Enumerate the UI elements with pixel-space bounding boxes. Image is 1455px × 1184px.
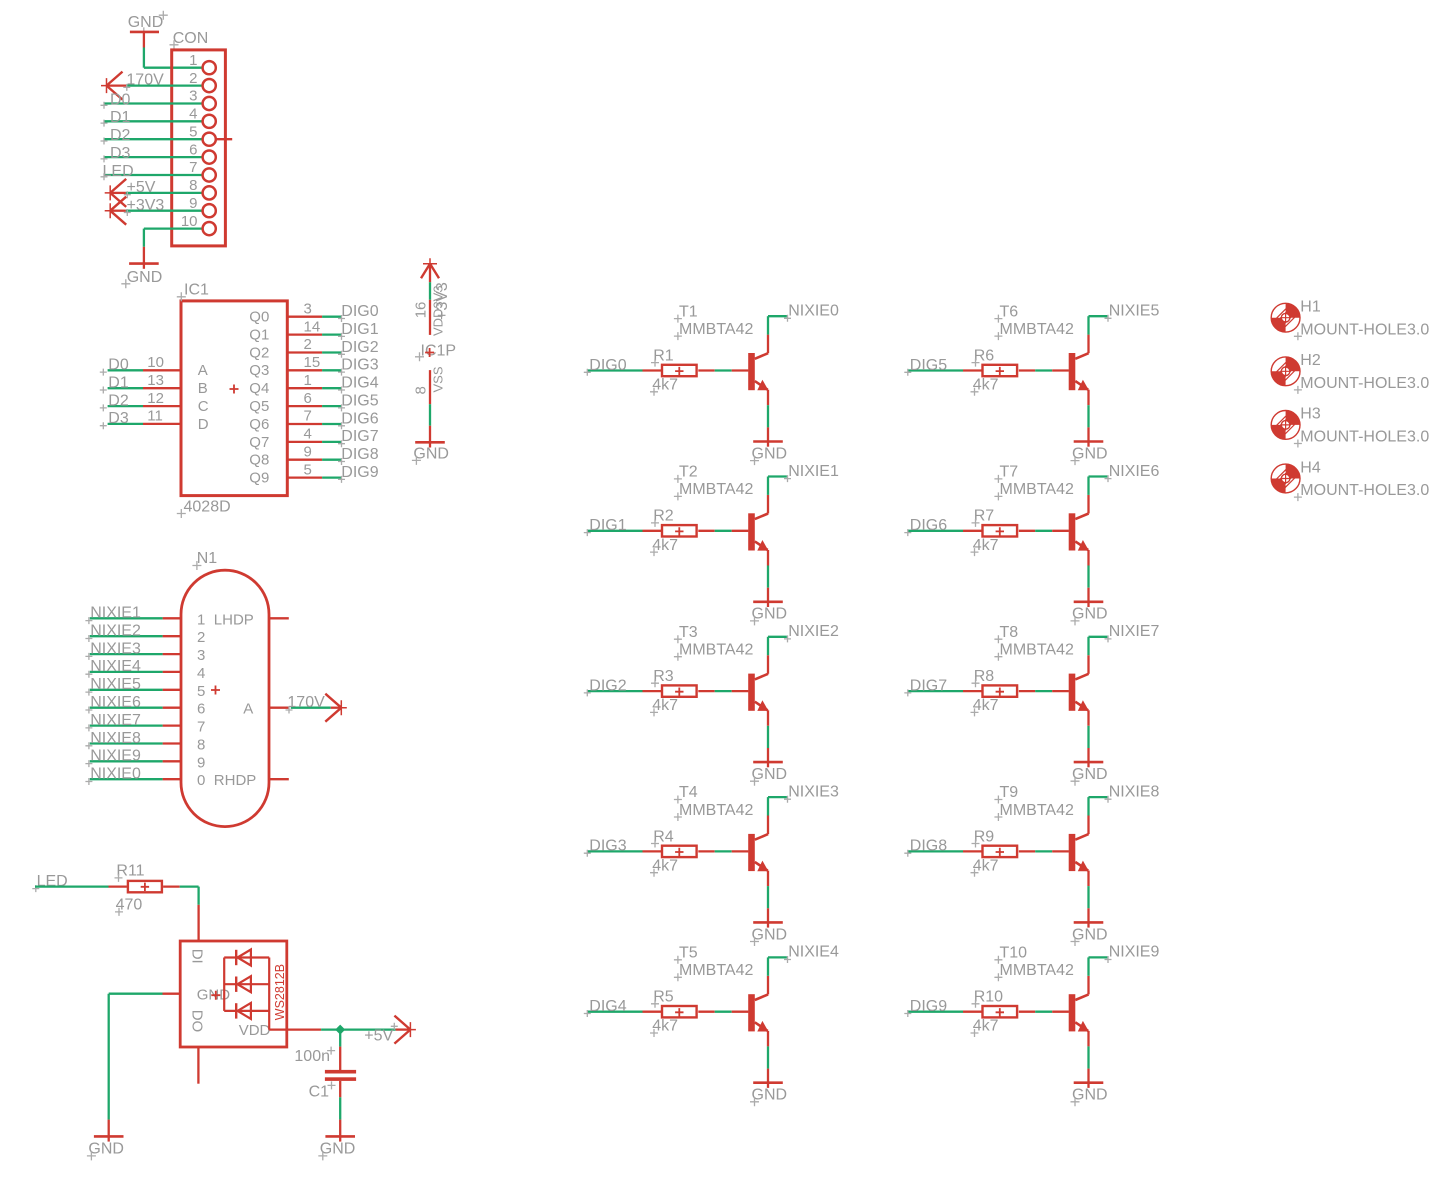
- transistor T3 MMBTA42: [674, 624, 769, 711]
- pin 4 of N1: [163, 665, 206, 682]
- net NIXIE1 to N1: [85, 605, 162, 625]
- svg-text:4k7: 4k7: [652, 537, 678, 554]
- pin 5 (Q9) of IC1: [249, 461, 322, 486]
- net NIXIE6 to N1: [85, 694, 162, 714]
- svg-text:MOUNT-HOLE3.0: MOUNT-HOLE3.0: [1300, 321, 1429, 338]
- capacitor C1 100n: [294, 1047, 356, 1101]
- wire T3 emitter to ground: [767, 710, 769, 762]
- svg-text:7: 7: [197, 719, 205, 736]
- svg-text:GND: GND: [1072, 766, 1108, 783]
- resistor R1 4k7: [650, 347, 697, 395]
- wire R9 to T9 base: [1019, 850, 1069, 852]
- svg-text:9: 9: [189, 195, 197, 212]
- IC IC1P label: [415, 343, 456, 362]
- net DIG6 from IC1: [322, 410, 379, 429]
- net DIG4 to R5: [584, 998, 662, 1017]
- svg-text:+3V3: +3V3: [434, 282, 451, 320]
- svg-text:MMBTA42: MMBTA42: [1000, 321, 1074, 338]
- transistor T7 MMBTA42: [994, 464, 1089, 551]
- svg-text:GND: GND: [752, 606, 788, 623]
- net DIG8 from IC1: [322, 446, 379, 465]
- svg-text:NIXIE1: NIXIE1: [90, 605, 141, 622]
- svg-text:14: 14: [304, 318, 321, 335]
- resistor R3 4k7: [650, 668, 697, 716]
- svg-text:NIXIE4: NIXIE4: [788, 944, 839, 961]
- net NIXIE8 to N1: [85, 730, 162, 750]
- junction node +5V: [335, 1025, 345, 1035]
- svg-text:4k7: 4k7: [973, 1018, 999, 1035]
- net NIXIE3 from T4 collector: [768, 783, 839, 834]
- svg-text:MMBTA42: MMBTA42: [679, 321, 753, 338]
- svg-text:DIG5: DIG5: [910, 357, 947, 374]
- svg-text:7: 7: [304, 408, 312, 425]
- svg-text:D1: D1: [110, 109, 131, 126]
- svg-text:13: 13: [147, 372, 164, 389]
- connector CON: [170, 30, 226, 246]
- net NIXIE5 from T6 collector: [1089, 303, 1160, 354]
- net DIG1 from IC1: [322, 321, 379, 340]
- svg-text:R8: R8: [974, 668, 995, 685]
- svg-text:T8: T8: [1000, 624, 1019, 641]
- svg-text:DIG2: DIG2: [341, 339, 378, 356]
- svg-text:DIG3: DIG3: [589, 838, 626, 855]
- svg-text:3: 3: [189, 88, 197, 105]
- svg-text:16: 16: [412, 302, 429, 319]
- svg-text:DIG4: DIG4: [341, 375, 378, 392]
- net +5V arrow: [340, 1016, 416, 1045]
- net D2 (CON pin 5): [101, 127, 203, 145]
- net D1 to IC1: [100, 375, 143, 394]
- svg-text:0: 0: [197, 772, 205, 789]
- svg-text:T3: T3: [679, 624, 698, 641]
- net D0 (CON pin 3): [101, 91, 203, 109]
- svg-text:MMBTA42: MMBTA42: [679, 642, 753, 659]
- svg-text:NIXIE6: NIXIE6: [90, 694, 141, 711]
- IC U1 (IC1 4028D): [177, 282, 287, 518]
- ground GND (bottom of CON): [121, 264, 162, 289]
- net +3V3 (CON pin 9): [105, 197, 202, 225]
- svg-text:VDD: VDD: [239, 1022, 271, 1039]
- pin 8 of CON: [189, 177, 216, 199]
- svg-text:VSS: VSS: [431, 366, 446, 392]
- svg-text:MMBTA42: MMBTA42: [679, 481, 753, 498]
- svg-text:5: 5: [304, 461, 312, 478]
- pin 7 of N1: [163, 719, 206, 736]
- net +5V (CON pin 8): [105, 179, 202, 207]
- svg-text:4k7: 4k7: [973, 697, 999, 714]
- wire T8 emitter to ground: [1087, 710, 1089, 762]
- svg-text:DIG9: DIG9: [910, 998, 947, 1015]
- wire GND to CON pin1: [144, 32, 202, 68]
- ground GND (T3): [750, 762, 787, 786]
- ground GND (top of CON): [128, 11, 168, 37]
- svg-text:MMBTA42: MMBTA42: [679, 802, 753, 819]
- svg-text:R9: R9: [974, 828, 995, 845]
- pin 8 (VSS) of IC1P to GND: [412, 366, 445, 442]
- svg-text:H4: H4: [1300, 459, 1321, 476]
- svg-text:D3: D3: [110, 145, 131, 162]
- transistor T9 MMBTA42: [994, 784, 1089, 871]
- svg-text:1: 1: [189, 52, 197, 69]
- net D3 to IC1: [100, 410, 143, 429]
- pin 3 (Q0) of IC1: [249, 300, 322, 325]
- svg-text:DIG8: DIG8: [910, 838, 947, 855]
- mount hole H3 MOUNT-HOLE3.0: [1271, 406, 1429, 448]
- svg-text:1: 1: [197, 611, 205, 628]
- svg-text:Q4: Q4: [249, 380, 269, 397]
- transistor T4 MMBTA42: [674, 784, 769, 871]
- svg-text:5: 5: [189, 123, 197, 140]
- svg-text:MMBTA42: MMBTA42: [1000, 481, 1074, 498]
- net D2 to IC1: [100, 392, 143, 411]
- svg-text:H3: H3: [1300, 406, 1321, 423]
- net DIG0 from IC1: [322, 303, 379, 322]
- transistor T10 MMBTA42: [994, 945, 1089, 1032]
- svg-text:MMBTA42: MMBTA42: [1000, 642, 1074, 659]
- svg-text:10: 10: [181, 213, 198, 230]
- svg-text:DIG1: DIG1: [341, 321, 378, 338]
- svg-text:NIXIE1: NIXIE1: [788, 463, 839, 480]
- pin 13 (B) of IC1: [143, 372, 208, 397]
- svg-text:IC1P: IC1P: [421, 343, 457, 360]
- svg-text:NIXIE7: NIXIE7: [1109, 623, 1160, 640]
- svg-text:DIG5: DIG5: [341, 392, 378, 409]
- svg-text:4k7: 4k7: [973, 857, 999, 874]
- svg-text:DIG8: DIG8: [341, 446, 378, 463]
- net NIXIE2 to N1: [85, 623, 162, 643]
- net NIXIE7 from T8 collector: [1089, 623, 1160, 674]
- svg-text:4k7: 4k7: [652, 857, 678, 874]
- svg-text:NIXIE9: NIXIE9: [1109, 944, 1160, 961]
- svg-text:IC1: IC1: [184, 282, 209, 299]
- svg-text:WS2812B: WS2812B: [273, 964, 287, 1020]
- svg-text:H1: H1: [1300, 299, 1321, 316]
- wire junction to C1: [339, 1030, 341, 1070]
- net DIG5 from IC1: [322, 392, 379, 411]
- wire T10 emitter to ground: [1087, 1031, 1089, 1083]
- svg-text:D2: D2: [108, 392, 129, 409]
- wire T4 emitter to ground: [767, 871, 769, 923]
- svg-text:Q7: Q7: [249, 434, 269, 451]
- svg-text:GND: GND: [128, 14, 164, 31]
- svg-text:4: 4: [304, 426, 312, 443]
- svg-text:GND: GND: [752, 766, 788, 783]
- net NIXIE0 from T1 collector: [768, 303, 839, 354]
- net NIXIE0 to N1: [85, 766, 162, 786]
- wire T9 emitter to ground: [1087, 871, 1089, 923]
- resistor R5 4k7: [650, 989, 697, 1037]
- svg-text:2: 2: [189, 70, 197, 87]
- resistor R6 4k7: [971, 347, 1018, 395]
- svg-text:NIXIE5: NIXIE5: [90, 676, 141, 693]
- svg-text:4k7: 4k7: [652, 377, 678, 394]
- mount hole H4 MOUNT-HOLE3.0: [1271, 459, 1429, 501]
- pin 14 (Q1) of IC1: [249, 318, 322, 343]
- svg-text:GND: GND: [127, 269, 163, 286]
- svg-text:R5: R5: [653, 989, 674, 1006]
- wire R4 to T4 base: [698, 850, 748, 852]
- svg-text:100n: 100n: [294, 1048, 330, 1065]
- svg-text:R3: R3: [653, 668, 674, 685]
- stub DO pin of WS2812B: [197, 1047, 199, 1084]
- svg-text:Q2: Q2: [249, 344, 269, 361]
- net DIG9 from IC1: [322, 464, 379, 483]
- svg-text:T4: T4: [679, 784, 698, 801]
- svg-text:NIXIE0: NIXIE0: [90, 766, 141, 783]
- svg-text:MOUNT-HOLE3.0: MOUNT-HOLE3.0: [1300, 429, 1429, 446]
- stub CON pin 5: [216, 138, 232, 140]
- svg-text:3: 3: [197, 647, 205, 664]
- pin 6 of N1: [163, 701, 206, 718]
- svg-text:D0: D0: [110, 91, 131, 108]
- wire R1 to T1 base: [698, 369, 748, 371]
- pin 6 (Q5) of IC1: [249, 390, 322, 415]
- net NIXIE1 from T2 collector: [768, 463, 839, 514]
- svg-text:MOUNT-HOLE3.0: MOUNT-HOLE3.0: [1300, 375, 1429, 392]
- svg-text:NIXIE8: NIXIE8: [90, 730, 141, 747]
- svg-text:4: 4: [189, 106, 197, 123]
- net NIXIE4 to N1: [85, 658, 162, 678]
- svg-text:+3V3: +3V3: [127, 197, 165, 214]
- svg-text:GND: GND: [1072, 445, 1108, 462]
- svg-text:DI: DI: [189, 949, 206, 964]
- svg-text:GND: GND: [752, 1087, 788, 1104]
- ground GND (IC1P): [412, 442, 449, 465]
- svg-text:Q9: Q9: [249, 470, 269, 487]
- svg-text:170V: 170V: [126, 72, 164, 89]
- pin 8 of N1: [163, 737, 206, 754]
- pin 1 of N1: [163, 611, 206, 628]
- svg-text:D1: D1: [108, 375, 129, 392]
- pin 15 (Q3) of IC1: [249, 354, 322, 379]
- svg-text:R7: R7: [974, 508, 995, 525]
- pin 7 of CON: [189, 159, 216, 181]
- ground GND (T10): [1071, 1083, 1108, 1107]
- svg-text:10: 10: [147, 354, 164, 371]
- svg-text:11: 11: [147, 408, 163, 425]
- svg-text:Q1: Q1: [249, 327, 269, 344]
- net DIG7 from IC1: [322, 428, 379, 447]
- svg-text:GND: GND: [88, 1141, 124, 1158]
- net NIXIE7 to N1: [85, 712, 162, 732]
- ground GND (T8): [1071, 762, 1108, 786]
- ground GND (T5): [750, 1083, 787, 1107]
- net LED to R11: [32, 873, 127, 892]
- wire R8 to T8 base: [1019, 690, 1069, 692]
- svg-text:T1: T1: [679, 303, 698, 320]
- svg-text:T2: T2: [679, 464, 698, 481]
- svg-text:Q0: Q0: [249, 309, 269, 326]
- svg-text:4k7: 4k7: [973, 537, 999, 554]
- svg-text:NIXIE0: NIXIE0: [788, 303, 839, 320]
- svg-text:GND: GND: [752, 926, 788, 943]
- power symbol IC1P (+3V3 / VDD3V3 pin 16): [412, 258, 451, 336]
- transistor T8 MMBTA42: [994, 624, 1089, 711]
- svg-text:NIXIE3: NIXIE3: [90, 640, 141, 657]
- svg-text:DIG6: DIG6: [910, 517, 947, 534]
- net NIXIE2 from T3 collector: [768, 623, 839, 674]
- svg-text:8: 8: [189, 177, 197, 194]
- svg-text:B: B: [198, 380, 208, 397]
- resistor R11 470: [115, 863, 162, 916]
- pin 2 of N1: [163, 629, 206, 646]
- svg-text:A: A: [198, 362, 208, 379]
- svg-text:MOUNT-HOLE3.0: MOUNT-HOLE3.0: [1300, 482, 1429, 499]
- net NIXIE9 from T10 collector: [1089, 944, 1160, 995]
- svg-text:6: 6: [304, 390, 312, 407]
- svg-text:9: 9: [197, 754, 205, 771]
- svg-text:D0: D0: [108, 357, 129, 374]
- svg-text:D: D: [198, 416, 209, 433]
- svg-text:DIG4: DIG4: [589, 998, 626, 1015]
- wire T2 emitter to ground: [767, 550, 769, 602]
- svg-text:2: 2: [304, 336, 312, 353]
- svg-text:C1: C1: [309, 1084, 330, 1101]
- svg-text:DIG3: DIG3: [341, 357, 378, 374]
- svg-text:170V: 170V: [287, 694, 325, 711]
- pin GND of WS2812B, wire to ground: [109, 994, 181, 1137]
- svg-text:DIG0: DIG0: [589, 357, 626, 374]
- pin 5 of CON: [189, 123, 216, 145]
- pin 9 (Q8) of IC1: [249, 443, 322, 468]
- svg-text:+5V: +5V: [127, 179, 156, 196]
- transistor T2 MMBTA42: [674, 464, 769, 551]
- net NIXIE3 to N1: [85, 640, 162, 660]
- svg-text:Q6: Q6: [249, 416, 269, 433]
- resistor R8 4k7: [971, 668, 1018, 716]
- pin 12 (C) of IC1: [143, 390, 209, 415]
- ground GND (T7): [1071, 602, 1108, 626]
- svg-text:GND: GND: [1072, 606, 1108, 623]
- net NIXIE8 from T9 collector: [1089, 783, 1160, 834]
- net D3 (CON pin 6): [101, 145, 203, 163]
- svg-text:4028D: 4028D: [184, 499, 231, 516]
- svg-text:4k7: 4k7: [973, 377, 999, 394]
- wire CON pin10 to GND: [144, 229, 202, 264]
- transistor T6 MMBTA42: [994, 303, 1089, 390]
- wire T7 emitter to ground: [1087, 550, 1089, 602]
- svg-text:NIXIE8: NIXIE8: [1109, 783, 1160, 800]
- pin 3 of CON: [189, 88, 216, 110]
- svg-text:DIG1: DIG1: [589, 517, 626, 534]
- svg-text:D2: D2: [110, 127, 131, 144]
- resistor R9 4k7: [971, 828, 1018, 876]
- svg-text:DIG9: DIG9: [341, 464, 378, 481]
- net NIXIE5 to N1: [85, 676, 162, 696]
- pin A of N1, net 170V: [243, 694, 347, 722]
- wire C1 to ground: [339, 1081, 341, 1137]
- net D0 to IC1: [100, 357, 143, 376]
- pin 9 of CON: [189, 195, 216, 217]
- svg-text:4k7: 4k7: [652, 1018, 678, 1035]
- wire R10 to T10 base: [1019, 1011, 1069, 1013]
- net DIG3 to R4: [584, 838, 662, 857]
- svg-text:D3: D3: [108, 410, 129, 427]
- ground GND (T6): [1071, 442, 1108, 466]
- svg-text:DIG6: DIG6: [341, 410, 378, 427]
- svg-text:NIXIE7: NIXIE7: [90, 712, 141, 729]
- net DIG0 to R1: [584, 357, 662, 376]
- resistor R10 4k7: [971, 989, 1018, 1037]
- svg-text:DIG7: DIG7: [910, 677, 947, 694]
- svg-text:12: 12: [147, 390, 164, 407]
- net 170V (CON pin 2): [101, 72, 202, 100]
- svg-text:NIXIE6: NIXIE6: [1109, 463, 1160, 480]
- net DIG2 to R3: [584, 677, 662, 696]
- svg-text:GND: GND: [1072, 1087, 1108, 1104]
- ground GND (T4): [750, 922, 787, 946]
- pin 6 of CON: [189, 141, 216, 163]
- pin 10 (A) of IC1: [143, 354, 208, 379]
- svg-text:R10: R10: [974, 989, 1003, 1006]
- nixie tube N1: [181, 550, 269, 827]
- resistor R7 4k7: [971, 508, 1018, 556]
- net DIG6 to R7: [904, 517, 982, 536]
- svg-text:NIXIE9: NIXIE9: [90, 748, 141, 765]
- wire T1 emitter to ground: [767, 390, 769, 442]
- svg-text:DO: DO: [189, 1010, 206, 1032]
- net DIG7 to R8: [904, 677, 982, 696]
- svg-text:T10: T10: [1000, 945, 1028, 962]
- ground GND (T9): [1071, 922, 1108, 946]
- resistor R4 4k7: [650, 828, 697, 876]
- pin 2 of CON: [189, 70, 216, 92]
- svg-text:9: 9: [304, 443, 312, 460]
- svg-text:NIXIE4: NIXIE4: [90, 658, 141, 675]
- svg-text:R6: R6: [974, 347, 995, 364]
- stub LHDP pin of N1: [269, 617, 289, 619]
- svg-text:Q8: Q8: [249, 452, 269, 469]
- net NIXIE4 from T5 collector: [768, 944, 839, 995]
- pin 10 of CON: [181, 213, 216, 235]
- svg-text:NIXIE2: NIXIE2: [788, 623, 839, 640]
- svg-text:Q5: Q5: [249, 398, 269, 415]
- svg-text:MMBTA42: MMBTA42: [679, 962, 753, 979]
- stub RHDP pin of N1: [269, 778, 289, 780]
- svg-text:DIG7: DIG7: [341, 428, 378, 445]
- svg-text:8: 8: [412, 386, 429, 394]
- net DIG3 from IC1: [322, 357, 379, 376]
- wire R6 to T6 base: [1019, 369, 1069, 371]
- pin 7 (Q6) of IC1: [249, 408, 322, 433]
- pin 3 of N1: [163, 647, 206, 664]
- svg-text:C: C: [198, 398, 209, 415]
- net DIG2 from IC1: [322, 339, 379, 358]
- ground GND (C1): [318, 1136, 355, 1160]
- svg-text:RHDP: RHDP: [214, 772, 257, 789]
- net NIXIE6 from T7 collector: [1089, 463, 1160, 514]
- wire R7 to T7 base: [1019, 530, 1069, 532]
- svg-text:GND: GND: [752, 445, 788, 462]
- pin 5 of N1: [163, 683, 206, 700]
- net DIG4 from IC1: [322, 375, 379, 394]
- svg-text:NIXIE2: NIXIE2: [90, 623, 141, 640]
- pin 0 of N1: [163, 772, 206, 789]
- svg-text:NIXIE3: NIXIE3: [788, 783, 839, 800]
- net LED (CON pin 7): [101, 163, 203, 181]
- ground GND (WS2812B): [87, 1136, 124, 1160]
- svg-text:T9: T9: [1000, 784, 1019, 801]
- pin VDD of WS2812B to +5V: [287, 1028, 340, 1030]
- LED module WS2812B: [180, 941, 287, 1047]
- mount hole H1 MOUNT-HOLE3.0: [1271, 299, 1429, 341]
- svg-text:LHDP: LHDP: [214, 611, 254, 628]
- svg-text:A: A: [243, 701, 253, 718]
- ground GND (T2): [750, 602, 787, 626]
- resistor R2 4k7: [650, 508, 697, 556]
- svg-text:4: 4: [197, 665, 205, 682]
- pin 4 (Q7) of IC1: [249, 426, 322, 451]
